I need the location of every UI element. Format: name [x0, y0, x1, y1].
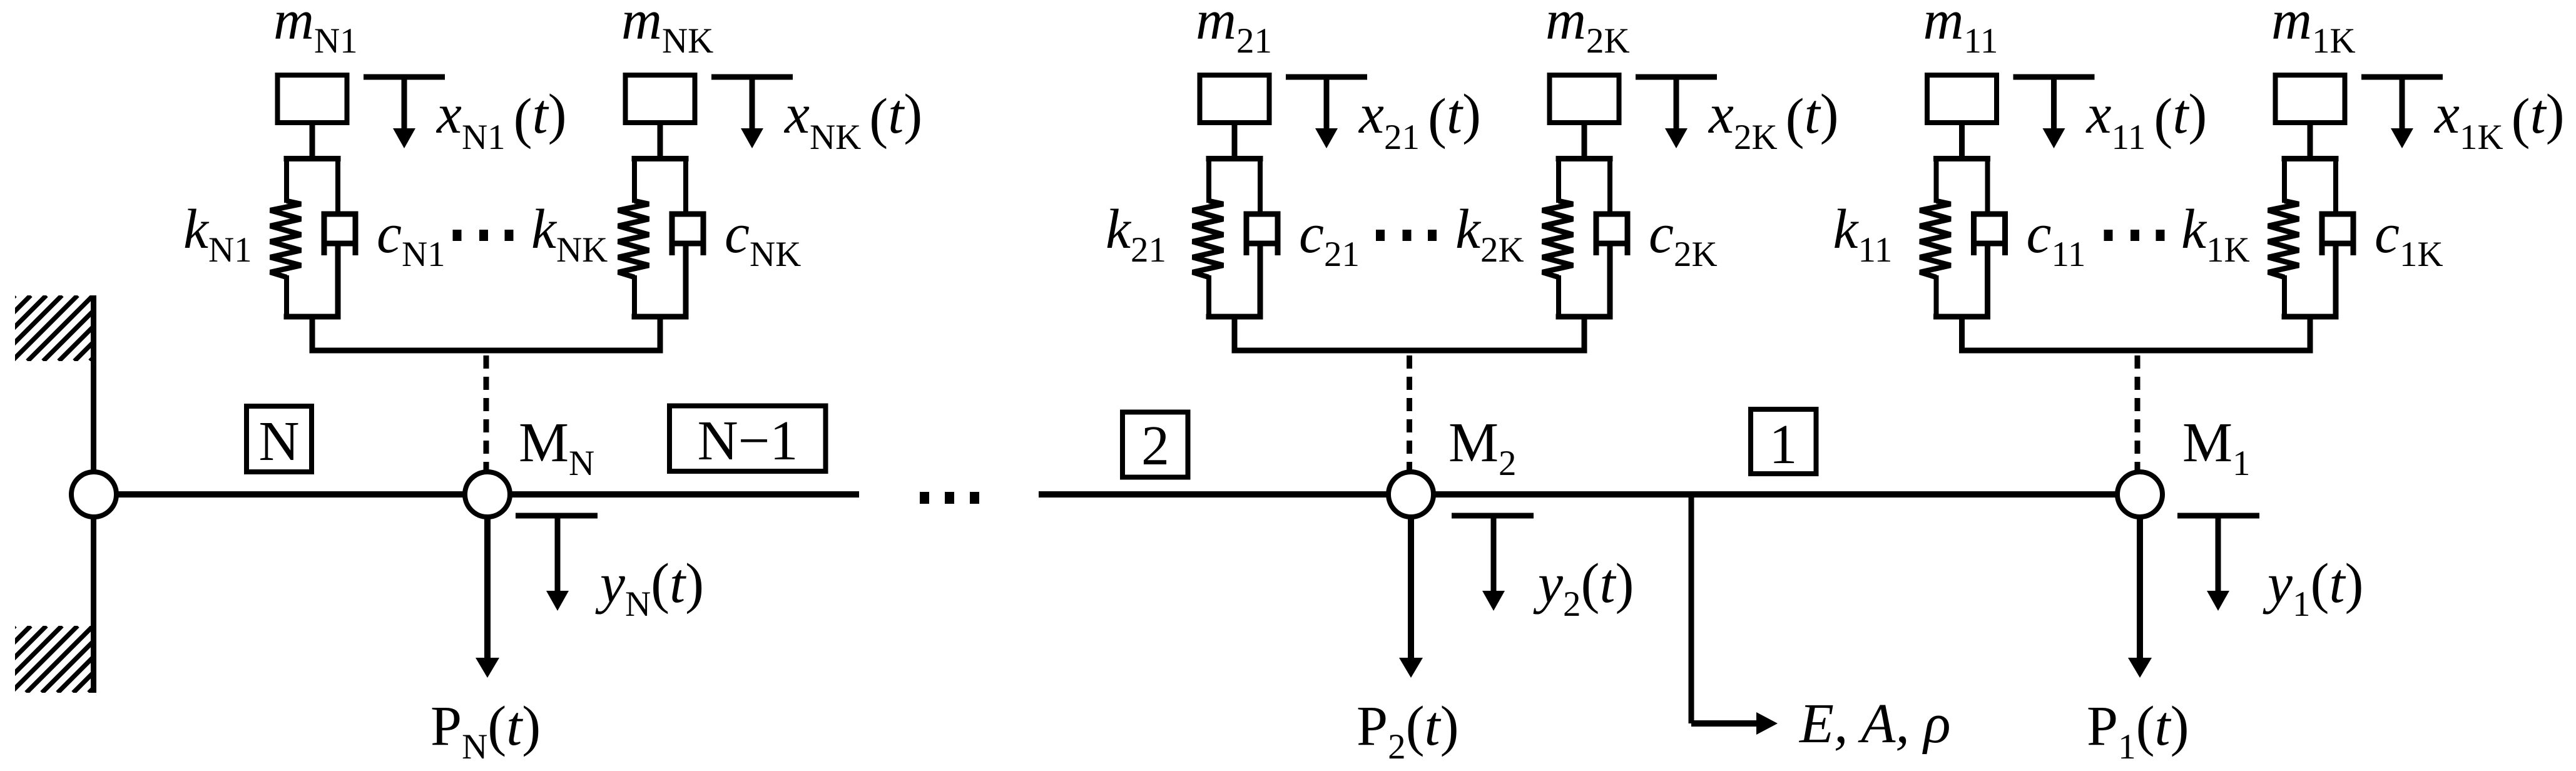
wire spring branch upper NR [632, 156, 637, 203]
wire frame top bar 1L [1933, 156, 1990, 161]
damper c_11 piston [1975, 241, 2005, 247]
svg-text:y1​(t): y1​(t) [2263, 553, 2363, 624]
spring k_11 [1920, 201, 1951, 277]
wall pin node [71, 472, 116, 517]
mass m_1K [2276, 75, 2345, 123]
svg-text:P1​(t): P1​(t) [2087, 695, 2189, 767]
wire spring branch upper 1L [1934, 156, 1939, 203]
wire frame bottom bar NR [632, 314, 689, 320]
svg-text:N: N [259, 411, 300, 472]
wire damper branch upper 1R [2333, 156, 2338, 217]
wire damper rod lower 1L [1985, 245, 1990, 319]
wire spring branch upper NL [284, 156, 289, 203]
datum bar x_N1 [364, 74, 445, 80]
svg-text:P2​(t): P2​(t) [1357, 695, 1459, 767]
wire frame bottom bar 1R [2282, 314, 2339, 320]
arrow x_21(t) [1324, 79, 1330, 130]
damper c_1K piston [2323, 241, 2353, 247]
element box N [247, 406, 312, 472]
wire spring branch lower 2L [1206, 275, 1211, 319]
arrow x_2K(t) [1674, 79, 1679, 130]
datum bar x_11 [2013, 74, 2095, 80]
arrow y_N(t) [555, 518, 561, 592]
wire frame-to-connector stem NR [658, 314, 663, 353]
svg-text:y2​(t): y2​(t) [1533, 553, 1634, 624]
arrow x_11(t) [2051, 79, 2057, 130]
wire spring branch lower NL [284, 275, 289, 319]
wire spring branch upper 2R [1556, 156, 1561, 203]
damper c_NK cylinder [672, 214, 703, 255]
node M_1 [2117, 472, 2162, 517]
arrow y_2(t) [1491, 518, 1497, 592]
datum bar x_1K [2361, 74, 2443, 80]
damper c_N1 piston [325, 241, 355, 247]
wire mass-to-frame stem 2R [1582, 124, 1587, 161]
mass m_N1 [278, 75, 347, 123]
damper c_2K cylinder [1596, 214, 1627, 255]
wire connector 1 [1959, 348, 2313, 354]
wire damper branch upper NR [683, 156, 688, 217]
wire frame-to-connector stem NL [310, 314, 315, 353]
wire mass-to-frame stem NL [310, 124, 315, 161]
spring k_N1 [270, 201, 301, 277]
wire damper branch upper 2R [1607, 156, 1612, 217]
wire mass-to-frame stem 2L [1232, 124, 1238, 161]
wire spring branch lower 2R [1556, 275, 1561, 319]
wire spring branch lower NR [632, 275, 637, 319]
wire frame top bar 2R [1556, 156, 1613, 161]
wire damper branch upper 2L [1258, 156, 1263, 217]
element box 1 [1751, 409, 1816, 474]
dashed link N [484, 355, 489, 471]
arrow P_1(t) [2137, 516, 2143, 659]
wire spring branch lower 1R [2282, 275, 2287, 319]
mass m_2K [1550, 75, 1619, 123]
dashed link 2 [1407, 355, 1412, 471]
damper c_21 piston [1248, 241, 1278, 247]
callout line E,A,rho [1689, 498, 1694, 723]
wire mass-to-frame stem NR [658, 124, 663, 161]
wire spring branch upper 1R [2282, 156, 2287, 203]
damper c_21 cylinder [1246, 214, 1278, 255]
ellipsis dots group 2 [1376, 230, 1385, 241]
wire frame-to-connector stem 1R [2308, 314, 2313, 353]
wire damper rod lower NR [683, 245, 689, 319]
damper c_2K piston [1597, 241, 1627, 247]
wire damper branch upper NL [335, 156, 340, 217]
wire spring branch lower 1L [1934, 275, 1939, 319]
wire connector 2 [1232, 348, 1587, 354]
bar ellipsis dots [920, 492, 929, 504]
wire spring branch upper 2L [1206, 156, 1211, 203]
spring k_NK [618, 201, 649, 277]
element box 2 [1123, 412, 1188, 477]
svg-text:2: 2 [1141, 415, 1169, 477]
mass m_NK [626, 75, 695, 123]
node M_2 [1388, 472, 1433, 517]
datum bar y_N [516, 513, 598, 519]
arrow y_1(t) [2216, 518, 2221, 592]
damper c_N1 cylinder [324, 214, 355, 255]
wire damper rod lower NL [335, 245, 341, 319]
wire frame bottom bar 2L [1206, 314, 1263, 320]
wire connector N [310, 348, 663, 354]
wire mass-to-frame stem 1R [2308, 124, 2313, 161]
wire damper rod lower 2L [1258, 245, 1263, 319]
datum bar y_1 [2177, 513, 2259, 519]
spring k_21 [1193, 201, 1223, 277]
arrow x_1K(t) [2400, 79, 2405, 130]
wire damper rod lower 1R [2333, 245, 2339, 319]
spring k_1K [2268, 201, 2299, 277]
wire frame-to-connector stem 2L [1232, 314, 1238, 353]
dashed link 1 [2135, 355, 2141, 471]
ellipsis dots group N [453, 230, 462, 241]
spring k_2K [1542, 201, 1573, 277]
arrow P_N(t) [484, 516, 491, 659]
wire damper rod lower 2R [1607, 245, 1613, 319]
damper c_1K cylinder [2322, 214, 2353, 255]
bar element segment right (2, 1) [1039, 491, 2140, 498]
datum bar y_2 [1452, 513, 1534, 519]
node M_N [465, 472, 510, 517]
wire damper branch upper 1L [1985, 156, 1990, 217]
svg-text:N−1: N−1 [698, 410, 798, 472]
wire frame-to-connector stem 1L [1959, 314, 1965, 353]
wall hatching bottom block [0, 626, 156, 693]
datum bar x_21 [1286, 74, 1367, 80]
wire frame bottom bar NL [284, 314, 341, 320]
svg-text:1: 1 [1769, 414, 1798, 476]
bar element segment left (N ... N-1) [94, 491, 859, 498]
damper c_11 cylinder [1974, 214, 2005, 255]
wire frame bottom bar 1L [1933, 314, 1990, 320]
arrow P_2(t) [1408, 516, 1414, 659]
mass m_21 [1200, 75, 1270, 123]
svg-text:E, A, ρ: E, A, ρ [1798, 693, 1951, 755]
wire mass-to-frame stem 1L [1959, 124, 1965, 161]
wall line [91, 295, 96, 693]
wire frame bottom bar 2R [1556, 314, 1613, 320]
wire frame top bar NR [632, 156, 689, 161]
wire frame top bar 1R [2282, 156, 2339, 161]
datum bar x_NK [711, 74, 793, 80]
damper c_NK piston [673, 241, 703, 247]
wire frame top bar NL [284, 156, 341, 161]
mass m_11 [1927, 75, 1997, 123]
wire frame-to-connector stem 2R [1582, 314, 1587, 353]
arrow x_N1(t) [402, 79, 407, 130]
datum bar x_2K [1636, 74, 1717, 80]
ellipsis dots group 1 [2104, 230, 2113, 241]
wire frame top bar 2L [1206, 156, 1263, 161]
element box N-1 [669, 406, 826, 472]
arrow x_NK(t) [750, 79, 755, 130]
